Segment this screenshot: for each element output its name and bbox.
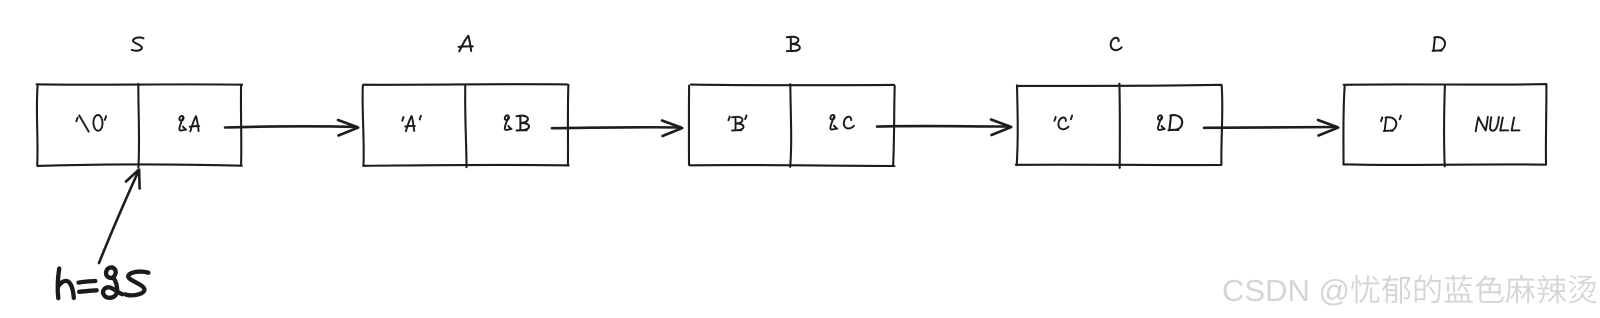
svg-text:CSDN @: CSDN @ <box>1222 273 1350 308</box>
